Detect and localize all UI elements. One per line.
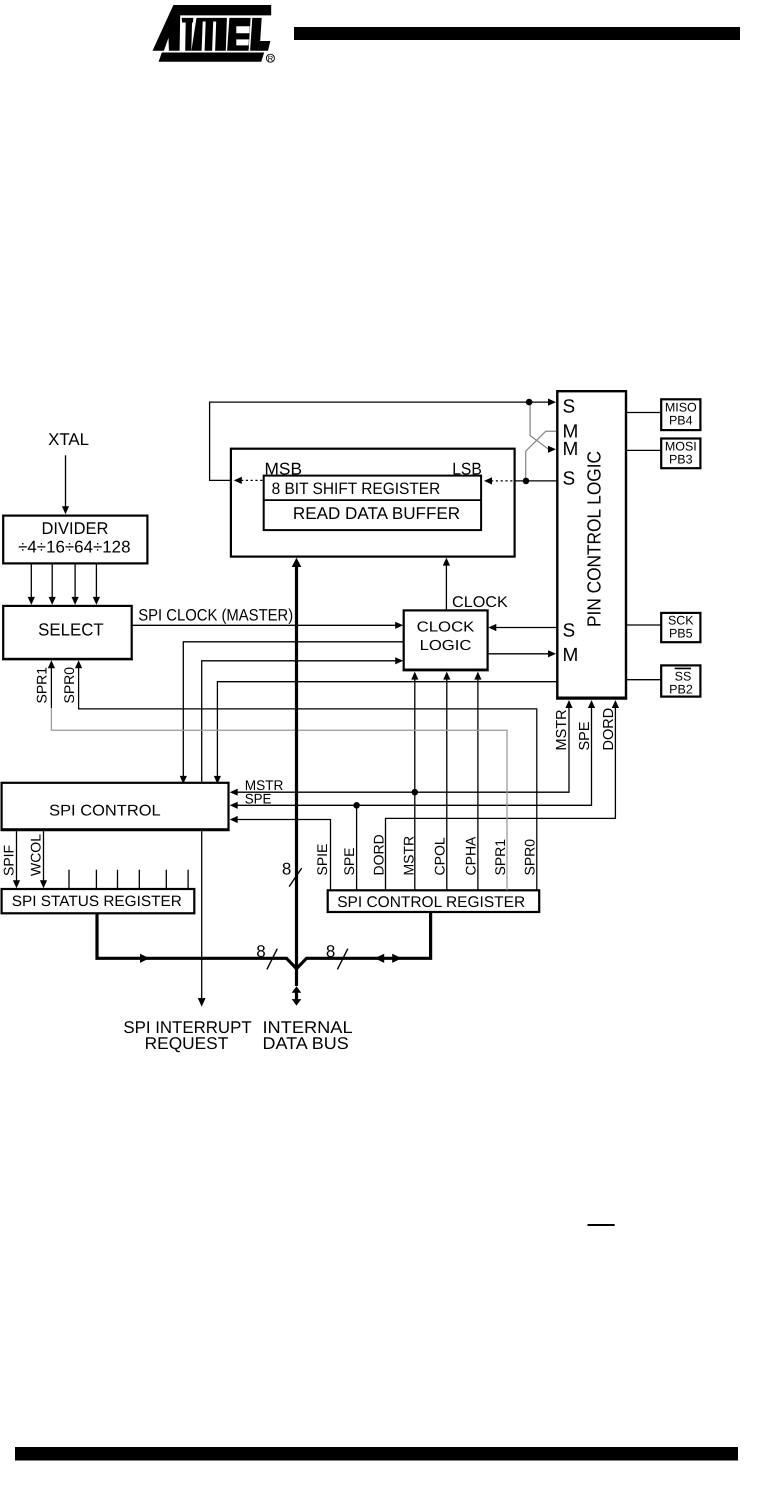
wire crossover gray B: S-lower dot to M1 [526, 431, 557, 479]
box PIN CONTROL LOGIC [556, 391, 627, 699]
junction dot on S lower line [523, 478, 530, 485]
svg-text:LOGIC: LOGIC [420, 638, 472, 654]
svg-text:SPE: SPE [245, 790, 272, 806]
svg-text:÷4÷16÷64÷128: ÷4÷16÷64÷128 [18, 538, 130, 557]
bus left horizontal into Y [287, 958, 297, 968]
arrow crossover into PIN M second [548, 446, 556, 453]
arrow thick bus up into container [292, 558, 302, 567]
arrow XTAL down [62, 506, 69, 514]
arrow CLOCK LOGIC to PIN M lower [548, 650, 556, 657]
box MOSI PB3 [661, 439, 700, 469]
svg-text:SPR0: SPR0 [522, 839, 538, 876]
junction dot MSTR [412, 789, 419, 796]
arrow pair on right thick bus (left) [375, 954, 385, 963]
arrow internal data bus up [292, 986, 302, 993]
svg-text:DORD: DORD [370, 834, 386, 875]
svg-text:CPHA: CPHA [462, 836, 478, 876]
svg-text:PIN CONTROL LOGIC: PIN CONTROL LOGIC [585, 451, 606, 627]
arrow SPE into SPI CONTROL right [230, 802, 238, 809]
wire SPI INTERRUPT REQUEST from SPI CONTROL [201, 831, 203, 999]
wire lower S line: container right edge to PIN S (second) [515, 480, 557, 482]
svg-text:SPI STATUS REGISTER: SPI STATUS REGISTER [12, 893, 182, 910]
wire DIVIDER to SELECT line3 [74, 563, 76, 598]
box SCK PB5 [661, 613, 700, 642]
box SPI CONTROL [1, 783, 230, 831]
wire MSTR column (register to clock logic) [414, 677, 416, 891]
arrows into PIN CONTROL bottom [565, 700, 572, 708]
wire SPI CONTROL top3 to PIN CONTROL LOGIC left [217, 682, 557, 778]
box shift-register container [231, 449, 515, 557]
arrow on left thick bus (points right) [140, 954, 150, 963]
svg-text:S: S [563, 469, 576, 490]
box 8 BIT SHIFT REGISTER / READ DATA BUFFER [264, 476, 481, 530]
arrows DIVIDER to SELECT [28, 597, 35, 605]
svg-text:CLOCK: CLOCK [452, 594, 508, 611]
svg-text:8: 8 [282, 859, 291, 878]
wire top S line: container to PIN S (top) [210, 402, 549, 480]
arrow line B into CLOCK LOGIC [395, 657, 403, 664]
svg-text:S: S [563, 620, 576, 641]
wire PIN CONTROL to MOSI pad [626, 449, 661, 451]
svg-text:S: S [563, 396, 576, 417]
arrow MSTR into SPI CONTROL right [230, 789, 238, 796]
arrow SPR1 up into SELECT [48, 660, 55, 668]
wire DORD column to PIN CONTROL bottom [386, 706, 616, 891]
svg-text:SPE: SPE [577, 721, 593, 750]
status register bit tick 2 [95, 870, 97, 889]
svg-text:WCOL: WCOL [28, 834, 44, 876]
bus status register L [97, 913, 288, 958]
status register bit tick 1 [68, 870, 70, 889]
box CLOCK LOGIC [403, 610, 489, 670]
svg-text:8: 8 [326, 942, 335, 961]
svg-text:PB4: PB4 [669, 414, 693, 428]
wire CLOCK vertical to container bottom [445, 564, 447, 610]
arrow SPI CLOCK into CLOCK LOGIC [395, 622, 403, 629]
box SPI STATUS REGISTER [2, 889, 195, 913]
svg-text:8: 8 [256, 942, 265, 961]
svg-text:SPI CONTROL REGISTER: SPI CONTROL REGISTER [337, 894, 525, 911]
wire SPI CLOCK (MASTER) SELECT to CLOCK LOGIC [132, 624, 398, 626]
arrow line C into SPI CONTROL top [214, 776, 221, 784]
slash on vertical bus [289, 868, 302, 887]
svg-text:PB3: PB3 [669, 452, 693, 466]
arrow SPR0 up into SELECT [75, 660, 82, 668]
wire SPIF to STATUS REGISTER [16, 831, 18, 881]
svg-text:DORD: DORD [601, 708, 617, 751]
svg-text:DIVIDER: DIVIDER [42, 519, 109, 538]
arrow top wire into PIN S top [548, 399, 556, 406]
box DIVIDER [3, 516, 147, 564]
wire dotted into shift register MSB side [241, 479, 264, 481]
box MISO PB4 [661, 399, 700, 430]
wire DIVIDER to SELECT line4 [95, 563, 97, 598]
arrow dotted MSB (points left) [234, 477, 242, 484]
wire SPI CONTROL top2 to CLOCK LOGIC left (arrow) [202, 661, 398, 782]
svg-text:REQUEST: REQUEST [145, 1034, 229, 1053]
svg-text:SELECT: SELECT [38, 620, 104, 640]
wire short overline segment lower right [588, 1224, 615, 1226]
svg-text:R: R [268, 54, 274, 63]
svg-text:READ DATA BUFFER: READ DATA BUFFER [293, 504, 460, 523]
bus double arrow shaft below Y [295, 991, 298, 1000]
arrow SPIE into SPI CONTROL right [230, 816, 238, 823]
wire DIVIDER to SELECT line2 [51, 563, 53, 598]
bus right diagonal into Y [297, 958, 307, 968]
Atmel logo [153, 5, 275, 63]
wire SPR1 gray elbow to register [51, 708, 507, 890]
svg-text:SPI CONTROL: SPI CONTROL [49, 803, 161, 820]
svg-text:DATA BUS: DATA BUS [263, 1034, 349, 1053]
svg-text:M: M [563, 645, 579, 666]
arrow line A into SPI CONTROL top [180, 776, 187, 784]
wire SPI CONTROL top1 to CLOCK LOGIC left (plain) [183, 642, 403, 778]
box SELECT [2, 606, 133, 660]
svg-text:SPIE: SPIE [314, 844, 330, 876]
wire MSTR row to SPI CONTROL and PIN CONTROL bottom [233, 706, 569, 793]
bus main vertical (internal data bus) [295, 562, 298, 986]
status register bit tick 5 [165, 870, 167, 889]
svg-text:MSTR: MSTR [554, 709, 570, 750]
header bar [294, 27, 740, 40]
svg-text:SPE: SPE [341, 847, 357, 875]
junction dot SPE [353, 802, 360, 809]
svg-text:PB5: PB5 [669, 627, 693, 641]
slash on right horizontal bus [337, 949, 347, 970]
wire CPHA column (register to clock logic) [477, 677, 479, 891]
wire DIVIDER to SELECT line1 [30, 563, 32, 598]
svg-text:SPIF: SPIF [0, 845, 16, 876]
wire WCOL to STATUS REGISTER [43, 831, 45, 881]
wire dotted into shift register LSB side [491, 480, 515, 482]
arrow dotted LSB (points left) [484, 477, 492, 484]
svg-text:MOSI: MOSI [665, 439, 697, 453]
wire SPIE to SPI CONTROL [233, 820, 331, 891]
svg-text:SPR0: SPR0 [61, 667, 77, 704]
arrows into CLOCK LOGIC bottom [411, 672, 418, 680]
junction dot on S top line [526, 399, 533, 406]
svg-text:M: M [563, 439, 579, 460]
wire SPR0 elbow SELECT to register [79, 664, 537, 890]
svg-text:SPI CLOCK (MASTER): SPI CLOCK (MASTER) [138, 607, 293, 625]
wire SPE column [356, 805, 358, 890]
arrow internal data bus down [292, 999, 302, 1006]
arrow WCOL into STATUS REGISTER [40, 880, 47, 888]
slash on left horizontal bus [267, 949, 277, 970]
svg-text:8 BIT SHIFT REGISTER: 8 BIT SHIFT REGISTER [272, 480, 441, 498]
bus right horizontal from control register [306, 912, 431, 958]
wire PIN CONTROL to MISO pad [626, 412, 661, 414]
svg-text:MISO: MISO [665, 400, 697, 414]
arrow SPI INTERRUPT REQUEST down [198, 998, 206, 1007]
svg-text:CLOCK: CLOCK [417, 619, 475, 635]
wire SPR1 vertical black part [50, 664, 52, 708]
wire PIN CONTROL to SCK pad [626, 624, 661, 626]
wire PIN CONTROL to SS pad [626, 679, 661, 681]
svg-text:SPR1: SPR1 [34, 667, 50, 704]
box SPI CONTROL REGISTER [328, 890, 540, 912]
svg-text:XTAL: XTAL [48, 430, 89, 449]
wire crossover gray A: S-top dot to M2 [530, 404, 550, 449]
status register bit tick 3 [117, 870, 119, 889]
wire CLOCK LOGIC to PIN M lower [488, 653, 549, 655]
svg-text:SCK: SCK [668, 614, 694, 628]
svg-text:SPR1: SPR1 [492, 839, 508, 876]
arrow SPIF into STATUS REGISTER [13, 880, 20, 888]
wire CPOL column (register to clock logic) [446, 677, 448, 891]
wire XTAL to DIVIDER [65, 455, 67, 507]
arrow CLOCK line up into container [443, 558, 450, 566]
box SS-bar PB2 [661, 665, 700, 696]
arrow into CLOCK LOGIC right (from PIN S lower) [488, 624, 496, 631]
svg-text:MSTR: MSTR [400, 836, 416, 876]
wire PIN S lower to CLOCK LOGIC (arrow at clock logic) [495, 627, 557, 629]
wire SPE row to SPI CONTROL and PIN CONTROL bottom [233, 706, 592, 806]
status register bit tick 6 [187, 870, 189, 889]
arrow pair on right thick bus (right) [392, 954, 402, 963]
svg-text:CPOL: CPOL [431, 837, 447, 875]
footer bar [15, 1447, 738, 1461]
status register bit tick 4 [138, 870, 140, 889]
svg-text:PB2: PB2 [669, 682, 693, 696]
